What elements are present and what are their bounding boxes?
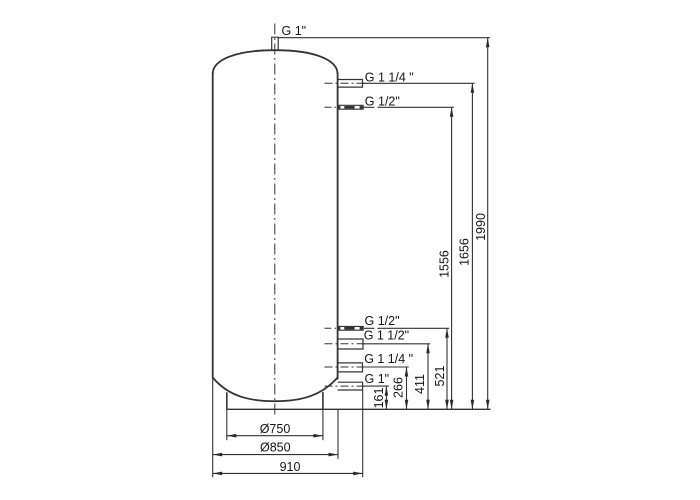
dimension D750 line (227, 434, 323, 438)
dimension 1556 line (450, 107, 454, 409)
extension line tank right below floor (337, 409, 339, 459)
leader line C (364, 327, 449, 329)
connection stub A G 1 1/4 upper (325, 80, 365, 88)
leader line A (363, 82, 475, 84)
dimension 411 line (426, 344, 430, 410)
dimension 161 line (385, 386, 389, 409)
extension line tank left below dish (212, 379, 214, 478)
dimension D850 line (213, 453, 338, 457)
leader line B (364, 106, 454, 108)
connection stub F G 1 inch lower (325, 382, 365, 390)
svg-text:Ø750: Ø750 (260, 422, 291, 436)
dimension 521 line (445, 328, 449, 409)
leader line D (363, 343, 430, 345)
svg-text:1656: 1656 (458, 238, 472, 266)
svg-text:161: 161 (372, 388, 386, 409)
svg-text:G 1/2": G 1/2" (365, 95, 400, 109)
leader line top G 1 inch (278, 37, 490, 39)
floor baseline (227, 408, 491, 410)
connection stub B G 1/2 upper (325, 105, 364, 109)
tank bottom dish (213, 378, 338, 402)
svg-text:1990: 1990 (474, 213, 488, 241)
connection stub E G 1 1/4 lower (325, 363, 365, 372)
tank skirt left (226, 392, 228, 409)
tank shell right wall (337, 73, 339, 380)
extension line stub tip right (362, 390, 364, 477)
svg-text:G 1": G 1" (365, 372, 390, 386)
svg-text:G 1 1/2": G 1 1/2" (364, 329, 409, 343)
dimension 910 line (213, 472, 363, 476)
svg-text:G 1/2": G 1/2" (365, 314, 400, 328)
svg-text:G 1 1/4 ": G 1 1/4 " (364, 352, 413, 366)
vertical centerline (274, 24, 276, 416)
svg-text:Ø850: Ø850 (260, 441, 291, 455)
svg-text:G 1": G 1" (282, 24, 307, 38)
svg-text:G 1 1/4 ": G 1 1/4 " (365, 71, 414, 85)
connection stub G 1 inch top (272, 37, 279, 51)
svg-text:411: 411 (413, 374, 427, 394)
svg-text:266: 266 (392, 377, 406, 398)
tank skirt right (322, 392, 324, 409)
extension line skirt left below floor (226, 409, 228, 440)
svg-text:521: 521 (433, 366, 447, 387)
tank shell left wall (212, 73, 214, 379)
leader line F (363, 385, 389, 387)
dimension 1990 line (486, 38, 490, 410)
connection stub D G 1 1/2 (325, 339, 366, 349)
extension line skirt right below floor (322, 409, 324, 440)
tank top dome (213, 50, 338, 74)
svg-text:1556: 1556 (438, 250, 452, 278)
connection stub C G 1/2 lower (325, 326, 364, 330)
dimension 1656 line (471, 83, 475, 409)
leader line E (363, 366, 409, 368)
dimension 266 line (405, 367, 409, 409)
svg-text:910: 910 (280, 460, 301, 474)
